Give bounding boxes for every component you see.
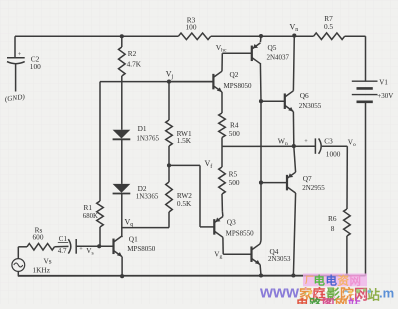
resistor R7 <box>314 14 345 40</box>
svg-text:R6: R6 <box>328 214 337 223</box>
svg-text:0.5: 0.5 <box>324 22 333 31</box>
svg-text:V1: V1 <box>379 79 388 87</box>
wire Vhc : Q2 collector to Q5 base <box>216 43 227 71</box>
resistor RW1 <box>166 120 192 165</box>
svg-text:0.5K: 0.5K <box>177 199 192 208</box>
capacitor C1 4.7 <box>58 235 114 256</box>
svg-text:C1: C1 <box>59 235 68 243</box>
svg-text:4.7: 4.7 <box>58 247 67 255</box>
svg-text:1000: 1000 <box>326 149 341 158</box>
svg-text:MPS8550: MPS8550 <box>226 230 255 238</box>
transistor Q7 2N2955 <box>261 146 325 275</box>
svg-text:C3: C3 <box>324 137 333 146</box>
node Q1 emitter junction <box>120 274 124 278</box>
svg-text:Q7: Q7 <box>303 174 312 183</box>
svg-text:R4: R4 <box>230 120 239 129</box>
node Q7 collector junction <box>291 273 295 277</box>
svg-text:Q5: Q5 <box>268 43 277 52</box>
wire left branch down to R1 <box>99 82 101 201</box>
wire D1 to D2 <box>121 139 123 184</box>
svg-text:600: 600 <box>33 233 44 242</box>
ground GND <box>4 93 25 103</box>
svg-text:1N3365: 1N3365 <box>136 193 159 201</box>
node Q7 base junction <box>259 181 263 185</box>
svg-text:站: 站 <box>348 297 361 305</box>
transistor Q1 MPS8050 <box>113 234 156 276</box>
resistor R3 <box>178 16 210 40</box>
capacitor C3 1000 <box>304 137 340 159</box>
svg-text:100: 100 <box>30 62 41 71</box>
node Q5 emitter junction <box>259 34 263 38</box>
wire node Vf to Q3 base <box>169 159 212 227</box>
svg-text:电: 电 <box>314 274 326 288</box>
svg-text:1.5K: 1.5K <box>177 136 192 145</box>
wire node Wn <box>222 136 315 148</box>
battery V1 +30V <box>352 36 394 275</box>
resistor R4 500 <box>219 113 240 146</box>
svg-text:Q1: Q1 <box>129 234 138 243</box>
svg-text:R2: R2 <box>128 49 137 58</box>
resistor RW2 <box>166 165 193 227</box>
diode D2 1N3365 <box>113 184 159 201</box>
svg-text:2N2955: 2N2955 <box>302 184 325 192</box>
resistor Rs 600 <box>18 226 68 251</box>
svg-text:.m: .m <box>379 286 394 301</box>
transistor Q3 MPS8550 <box>200 211 254 254</box>
svg-text:资: 资 <box>338 274 350 288</box>
wire node Vg : Q3 collector to Q4 base <box>214 251 251 261</box>
watermark speckles <box>303 288 371 299</box>
transistor Q4 2N3053 <box>251 241 291 276</box>
svg-text:电: 电 <box>326 274 338 288</box>
svg-text:2N3053: 2N3053 <box>268 255 291 263</box>
svg-text:电: 电 <box>296 297 309 305</box>
svg-text:MPS8050: MPS8050 <box>224 82 253 90</box>
wire bottom ground rail <box>18 271 366 275</box>
svg-text:www: www <box>259 284 299 302</box>
node Q6 base junction <box>259 99 263 103</box>
wire node Vj <box>100 69 213 83</box>
node Vn <box>292 34 296 38</box>
resistor R6 8 <box>328 209 350 276</box>
watermark row 2 www <box>259 284 394 303</box>
svg-text:+: + <box>304 138 308 145</box>
node Q4 emitter junction <box>259 273 263 277</box>
svg-text:R1: R1 <box>84 203 93 212</box>
wire center rail Q5 collector to Q4 collector <box>260 101 262 240</box>
wire R2 to D1 <box>121 82 123 130</box>
svg-text:1N3765: 1N3765 <box>136 135 159 143</box>
wire node Vo to R6 <box>322 139 356 209</box>
svg-text:+30V: +30V <box>377 92 393 100</box>
wire top supply rail <box>15 35 178 37</box>
node RW1/RW2 junction <box>167 163 171 167</box>
resistor R5 500 <box>219 146 240 211</box>
svg-text:2N4037: 2N4037 <box>267 54 290 62</box>
wire D2 to Vq rail <box>121 194 123 238</box>
node R2 top junction <box>120 34 124 38</box>
wire Vj down to RW1 <box>168 82 170 120</box>
svg-text:D1: D1 <box>138 124 147 133</box>
svg-text:Vs: Vs <box>44 257 52 266</box>
svg-text:680K: 680K <box>83 213 98 220</box>
resistor R2 <box>119 36 142 81</box>
svg-text:500: 500 <box>229 129 240 138</box>
svg-text:MPS8050: MPS8050 <box>127 245 156 253</box>
svg-text:1KHz: 1KHz <box>33 265 51 274</box>
wire Q2 emitter to R4 <box>221 92 223 113</box>
svg-text:2N3055: 2N3055 <box>299 102 322 110</box>
svg-text:500: 500 <box>229 178 240 187</box>
svg-text:网: 网 <box>335 298 348 305</box>
wire node Vq <box>122 218 169 229</box>
watermark row 3 <box>296 297 361 309</box>
watermark row 1 <box>303 274 367 288</box>
source Vs 1KHz <box>12 247 52 275</box>
diode D1 1N3765 <box>113 124 160 142</box>
node R1/C1/Q1 base junction <box>97 244 101 248</box>
node R6 bottom junction <box>345 274 348 277</box>
svg-text:Q3: Q3 <box>227 217 236 226</box>
svg-text:路: 路 <box>309 297 322 305</box>
resistor R1 <box>83 201 104 246</box>
svg-text:+: + <box>79 246 83 253</box>
capacitor C2 <box>7 36 41 91</box>
svg-text:图: 图 <box>322 298 335 305</box>
svg-text:+: + <box>18 51 22 58</box>
svg-text:4.7K: 4.7K <box>127 60 142 69</box>
svg-text:Q2: Q2 <box>230 70 239 79</box>
transistor Q2 MPS8050 <box>169 70 252 92</box>
transistor Q5 2N4037 <box>222 36 289 101</box>
svg-text:100: 100 <box>186 22 197 31</box>
svg-text:8: 8 <box>331 224 335 233</box>
transistor Q6 2N3055 <box>261 36 322 147</box>
svg-text:Q6: Q6 <box>300 91 309 100</box>
